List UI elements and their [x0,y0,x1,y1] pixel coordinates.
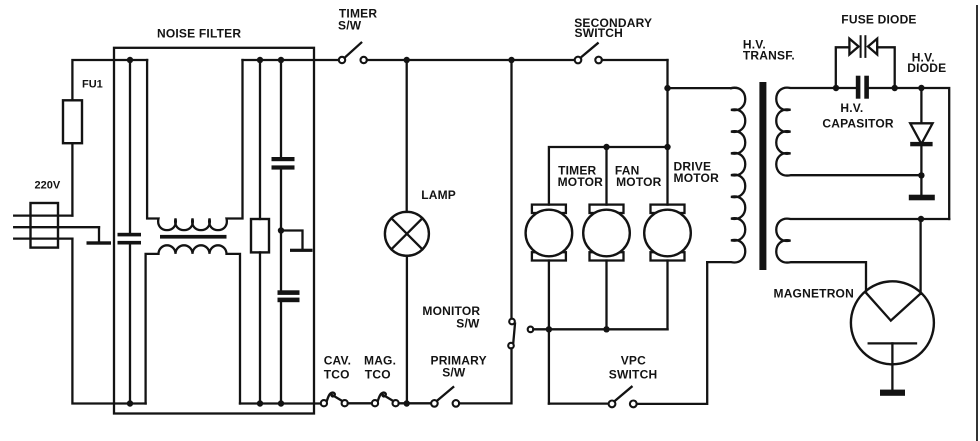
thermal cutout CAV TCO blade [327,393,343,401]
noise filter box [114,48,314,414]
wire fuse to noise filter hot rail [72,60,147,100]
wire fan motor bottom [605,261,607,330]
transformer T1 HV secondary winding [776,88,921,176]
wire bottom bus to monitor [459,348,511,403]
diode HV D2 bar [910,142,932,146]
svg-text:MAGNETRON: MAGNETRON [774,287,854,301]
capacitor HV plates [856,76,861,99]
svg-text:FU1: FU1 [82,79,103,91]
ground chassis stub at plug [98,227,100,241]
capacitor C3 plates [278,290,300,295]
wire motor top bus [549,147,668,205]
svg-text:LAMP: LAMP [421,188,456,202]
ground stub below HV diode [920,175,922,194]
node 220V supply prong lines [14,216,99,239]
capacitor C2 line upper [280,60,282,157]
wire hot rail inside box right [243,59,339,61]
switch secondary contacts [575,57,582,64]
capacitor C1 line lower [129,245,131,404]
wire secondary switch to transformer [668,87,732,89]
wire drive motor bottom [666,261,668,330]
thermal cutout MAG TCO contacts [372,400,378,406]
wire hot rail right [602,59,668,61]
inductor choke bottom coil [146,245,240,403]
wire timer motor bottom [548,261,550,404]
svg-text:NOISE FILTER: NOISE FILTER [157,26,241,40]
magnetron cathode V [866,293,921,321]
transformer T1 core [759,82,766,270]
svg-text:SWITCH: SWITCH [575,26,624,40]
diode HV D2 triangle [910,123,932,144]
wire VPC to transformer primary [637,262,708,404]
svg-text:MOTOR: MOTOR [616,175,662,189]
diode HV D2 leg upper [920,88,922,123]
svg-text:TCO: TCO [324,368,350,382]
motor fan M2 [590,205,624,213]
fuse diode D1 triangle right [868,39,877,55]
fuse diode D1 triangle left [849,39,858,55]
svg-text:H.V.: H.V. [840,101,863,115]
switch VPC contacts [609,401,616,408]
wire bottom bus inside box [240,402,321,404]
svg-text:S/W: S/W [456,316,480,330]
capacitor C2 plates [272,157,295,161]
switch timer S/W contacts [339,57,345,63]
svg-text:S/W: S/W [442,365,466,379]
wire monitor to motor common [533,328,667,330]
220V plug body [31,203,59,248]
svg-text:CAPASITOR: CAPASITOR [822,116,893,130]
switch secondary blade [581,43,598,57]
wire TCO link [348,402,372,404]
svg-text:MOTOR: MOTOR [558,175,604,189]
fuse diode D1 right leg [877,47,895,88]
wire secondary switch drop [666,60,668,205]
magnetron ground stem [891,343,893,389]
capacitor C1 line upper [129,60,131,233]
diode HV D2 leg lower [920,146,922,175]
switch monitor blade [513,324,515,343]
ground chassis stub in noise filter [281,231,303,249]
svg-text:FUSE DIODE: FUSE DIODE [841,13,916,27]
wire hot rail middle [367,59,575,61]
svg-text:220V: 220V [35,179,61,191]
wire magnetron right feed [919,219,921,294]
svg-text:MAG.: MAG. [364,353,396,367]
switch monitor NC contact [528,327,534,333]
thermal cutout MAG TCO blade [378,393,394,401]
ground bar magnetron [880,390,905,396]
motor timer M1 [532,205,566,213]
svg-text:TCO: TCO [365,368,391,382]
svg-text:S/W: S/W [338,18,362,32]
resistor R line upper [259,60,261,219]
svg-text:DIODE: DIODE [907,61,946,75]
magnetron body [851,281,934,364]
svg-text:SWITCH: SWITCH [609,367,658,381]
capacitor C1 plates [118,233,142,237]
thermal cutout CAV TCO contacts [321,400,327,406]
switch primary contacts [431,400,438,407]
magnetron filament bar [869,342,916,344]
wire neutral plug drop to bottom bus [72,239,145,404]
resistor R body [251,219,269,252]
inductor choke core bar [160,235,227,239]
switch primary blade [437,387,453,401]
border right rule [976,5,978,441]
switch VPC blade [615,387,632,401]
wire hot riser plug to fuse [71,143,73,215]
wire monitor branch upper [510,60,512,319]
wire timer motor to VPC [549,402,609,404]
transformer T1 filament winding [776,219,949,292]
transformer T1 primary winding [707,88,745,263]
svg-text:TRANSF.: TRANSF. [743,49,795,63]
wire lamp branch upper [406,60,408,212]
fuse FU1 [63,100,82,143]
switch timer S/W blade [345,43,362,58]
svg-text:MOTOR: MOTOR [674,171,720,185]
inductor choke top coil [147,60,242,230]
fuse diode D1 bars [860,35,862,58]
fuse diode D1 left leg [836,47,850,88]
capacitor C3 line lower [280,302,282,403]
wire bottom bus to primary switch [399,402,431,404]
svg-text:CAV.: CAV. [324,353,351,367]
switch monitor contacts [509,319,515,325]
wire HV cap to right corner [869,88,949,219]
resistor R line lower [259,252,261,403]
lamp [385,212,429,256]
wire C2 to C3 [280,170,282,291]
svg-text:VPC: VPC [621,354,646,368]
wire lamp branch lower [406,256,408,404]
motor drive M3 [651,205,685,213]
junction dots [127,57,133,63]
